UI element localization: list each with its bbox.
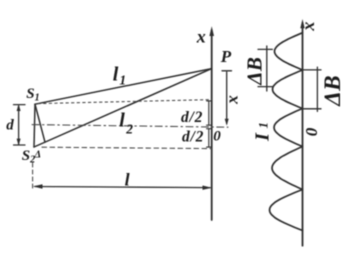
- svg-text:d/2: d/2: [182, 128, 204, 145]
- svg-text:Δ: Δ: [34, 150, 42, 161]
- svg-text:1: 1: [256, 122, 271, 129]
- svg-text:d/2: d/2: [181, 109, 203, 126]
- svg-text:S1: S1: [26, 86, 39, 104]
- svg-text:0: 0: [302, 127, 321, 136]
- svg-text:P: P: [220, 47, 232, 66]
- svg-text:x: x: [196, 27, 206, 47]
- svg-text:l: l: [125, 170, 130, 190]
- svg-text:0: 0: [213, 129, 221, 145]
- svg-text:I: I: [252, 132, 274, 142]
- svg-text:d: d: [6, 117, 14, 133]
- svg-text:S2: S2: [22, 148, 35, 166]
- svg-text:x: x: [222, 95, 241, 105]
- svg-text:ΔB: ΔB: [320, 75, 345, 107]
- svg-text:x: x: [298, 22, 318, 32]
- svg-text:l2: l2: [119, 110, 133, 137]
- svg-text:ΔB: ΔB: [243, 57, 267, 86]
- svg-text:l1: l1: [113, 64, 126, 88]
